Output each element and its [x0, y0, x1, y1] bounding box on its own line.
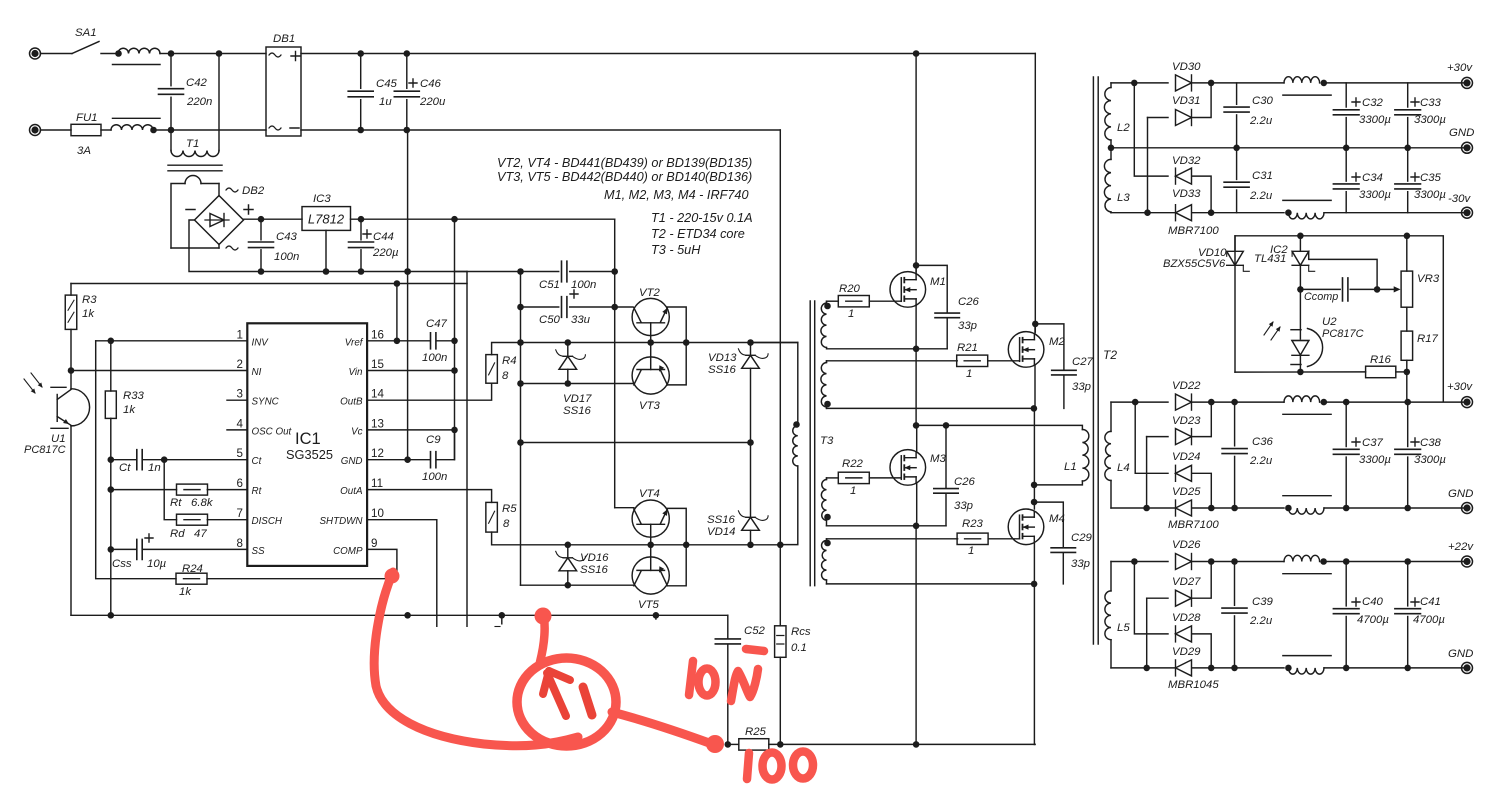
red text 100: [747, 753, 749, 779]
MOSFET M1: [890, 272, 926, 308]
diode VD23: [1147, 436, 1168, 438]
svg-text:33u: 33u: [571, 314, 591, 326]
TL431 ref wire: [1309, 251, 1377, 289]
svg-text:C36: C36: [1252, 436, 1274, 448]
regulator IC3 L7812: [302, 207, 351, 231]
left rail vertical: [70, 284, 72, 296]
pin 1 INV wire: [96, 340, 248, 342]
resistor R24 1k: [176, 573, 207, 584]
pin 7 DISCH wire with resistor Rd 47: [207, 519, 247, 521]
red text 10N: [689, 661, 693, 695]
svg-text:33p: 33p: [954, 500, 973, 512]
svg-text:VD13: VD13: [708, 352, 737, 364]
svg-text:R17: R17: [1417, 333, 1439, 345]
transformer T1 primary winding: [170, 130, 172, 151]
pin 10 SHTDWN wire down: [367, 520, 437, 627]
svg-text:T3 - 5uH: T3 - 5uH: [651, 243, 701, 257]
capacitor C32 3300u: [1345, 83, 1347, 107]
output choke +22v rail: [1284, 555, 1320, 561]
svg-text:VD26: VD26: [1172, 539, 1201, 551]
capacitor C40 4700u: [1345, 562, 1347, 606]
svg-text:33p: 33p: [1071, 558, 1090, 570]
svg-text:SS: SS: [252, 546, 266, 557]
wire ground turn down to 283.5: [466, 272, 468, 627]
svg-text:SYNC: SYNC: [252, 397, 280, 408]
pin 16 Vref wire: [367, 340, 430, 342]
svg-text:R5: R5: [502, 503, 517, 515]
junction C43 top: [258, 216, 265, 223]
capacitor C26 33p: [916, 265, 947, 312]
svg-text:6.8k: 6.8k: [191, 497, 214, 509]
winding4 bottom wire to M4 source: [827, 583, 1034, 585]
pin 2 NI wire: [71, 370, 247, 372]
svg-text:100n: 100n: [571, 279, 596, 291]
diode VD33: [1176, 205, 1192, 221]
svg-text:16: 16: [371, 328, 384, 341]
diode VD14 SS16: [742, 517, 760, 530]
svg-text:C35: C35: [1420, 172, 1442, 184]
capacitor C37 3300u: [1345, 402, 1347, 446]
pin 4 OSC Out stub: [227, 429, 247, 431]
diode VD24: [1135, 402, 1168, 473]
svg-text:MBR7100: MBR7100: [1168, 519, 1219, 531]
capacitor C44 220u polarized: [360, 219, 362, 240]
U2 light arrows: [1271, 327, 1280, 340]
diode VD13 SS16: [742, 355, 760, 368]
svg-text:3300µ: 3300µ: [1414, 189, 1446, 201]
sense rail to bridge: [916, 743, 1035, 745]
svg-text:VD22: VD22: [1172, 380, 1201, 392]
svg-text:IC3: IC3: [313, 193, 331, 205]
svg-text:10µ: 10µ: [147, 558, 167, 570]
pin 14 OutB wire: [367, 383, 492, 400]
svg-text:R22: R22: [842, 458, 864, 470]
svg-text:Rt: Rt: [170, 497, 182, 509]
T2 core: [1092, 77, 1094, 644]
red circle around transistor sketch: [517, 658, 616, 746]
stub artifacts below rail: [501, 615, 503, 624]
12V feed vertical to drivers: [614, 219, 616, 508]
svg-text:14: 14: [371, 388, 384, 401]
svg-text:2: 2: [237, 358, 243, 371]
junction C46 top: [404, 50, 411, 57]
pin 3 SYNC stub: [227, 399, 247, 401]
svg-text:C38: C38: [1420, 437, 1442, 449]
svg-text:C26: C26: [958, 296, 980, 308]
capacitor C33 3300u: [1407, 83, 1409, 107]
optocoupler U2 PC817C LED: [1299, 289, 1301, 339]
svg-text:Css: Css: [112, 558, 132, 570]
svg-text:2.2u: 2.2u: [1249, 190, 1273, 202]
svg-text:R24: R24: [182, 563, 203, 575]
svg-text:MBR1045: MBR1045: [1168, 679, 1219, 691]
svg-text:T1: T1: [186, 138, 199, 150]
regulator block bottom wire: [1235, 371, 1366, 373]
capacitor C47 100n: [431, 333, 436, 349]
svg-text:VT3: VT3: [639, 400, 661, 412]
svg-text:C44: C44: [373, 231, 394, 243]
svg-text:VD14: VD14: [707, 526, 736, 538]
svg-text:3300µ: 3300µ: [1414, 454, 1446, 466]
inductor L1: [946, 425, 1082, 429]
svg-text:1: 1: [848, 308, 854, 320]
terminal -30v: [1462, 207, 1473, 218]
svg-text:3A: 3A: [77, 145, 91, 157]
T3 secondary winding 1: [821, 303, 827, 348]
svg-text:VR3: VR3: [1417, 273, 1440, 285]
svg-text:100n: 100n: [274, 251, 299, 263]
svg-text:VT5: VT5: [638, 599, 660, 611]
right bridge vertical M2/M4: [1034, 54, 1036, 333]
VT3 collector wire: [521, 383, 634, 385]
svg-text:1: 1: [237, 328, 243, 341]
svg-text:C45: C45: [376, 78, 398, 90]
svg-text:3: 3: [237, 388, 243, 401]
junction at ground rail: [404, 268, 411, 275]
svg-text:47: 47: [194, 528, 207, 540]
svg-text:T1 - 220-15v 0.1A: T1 - 220-15v 0.1A: [651, 211, 753, 225]
wire DC minus vertical down: [407, 130, 409, 272]
svg-text:2.2u: 2.2u: [1249, 615, 1273, 627]
winding L5: [1110, 562, 1112, 591]
junction R3 to NI wire: [68, 367, 75, 374]
transistor VT5: [632, 557, 669, 594]
pin 13 Vc wire: [367, 429, 455, 431]
resistor R17: [1401, 331, 1413, 360]
svg-text:DB2: DB2: [242, 185, 265, 197]
M1 drain/source leads: [915, 265, 917, 274]
Vref branch vertical: [396, 284, 398, 341]
capacitor C27 33p: [1035, 324, 1064, 370]
capacitor C29 33p: [1034, 502, 1063, 547]
svg-text:SS16: SS16: [580, 564, 609, 576]
svg-text:2.2u: 2.2u: [1249, 455, 1273, 467]
junction C45 top: [357, 50, 364, 57]
junction C42 top: [168, 50, 175, 57]
svg-text:GND: GND: [341, 456, 363, 467]
U1 light arrows: [31, 373, 42, 387]
svg-text:13: 13: [371, 417, 384, 430]
capacitor C50 33u polarized: [521, 306, 559, 308]
GND choke of L5 section: [1283, 655, 1331, 657]
driver left vertical: [520, 272, 522, 586]
svg-text:C52: C52: [744, 625, 766, 637]
diode VD22: [1176, 394, 1192, 410]
capacitor C34 3300u: [1345, 148, 1347, 181]
pin 12 GND wire: [367, 459, 430, 461]
wire base rail to T3: [793, 421, 800, 428]
capacitor C45 1u: [360, 54, 362, 89]
diode VD28: [1134, 562, 1168, 634]
ground rail under IC3: [261, 271, 467, 273]
svg-text:VD30: VD30: [1172, 61, 1201, 73]
terminal GND L4: [1462, 503, 1473, 514]
bridge rectifier DB2: [195, 196, 244, 245]
wire DB2 minus to ground rail: [189, 220, 261, 272]
svg-text:L2: L2: [1117, 122, 1130, 134]
svg-text:L1: L1: [1064, 461, 1077, 473]
svg-text:VD16: VD16: [580, 552, 609, 564]
svg-text:1k: 1k: [123, 404, 136, 416]
terminal +22v: [1462, 556, 1473, 567]
resistor R20 1: [827, 300, 839, 302]
svg-text:M3: M3: [930, 453, 946, 465]
svg-text:3300µ: 3300µ: [1359, 454, 1391, 466]
M2-M4 midpoint vertical: [1033, 408, 1035, 509]
pin 8 SS wire: [143, 548, 248, 550]
svg-text:C33: C33: [1420, 97, 1442, 109]
junction C45 bottom: [357, 127, 364, 134]
svg-text:TL431: TL431: [1254, 253, 1286, 265]
junction C44 bottom: [358, 268, 365, 275]
svg-text:VD33: VD33: [1172, 188, 1201, 200]
INV feedback vertical: [96, 341, 176, 579]
IC1 SG3525 body: [247, 323, 367, 566]
M1-M3 midpoint vertical: [915, 349, 917, 426]
capacitor C51 100n: [562, 261, 567, 282]
svg-text:L4: L4: [1117, 462, 1130, 474]
svg-text:SA1: SA1: [75, 27, 97, 39]
svg-text:BZX55C5V6: BZX55C5V6: [1163, 258, 1226, 270]
svg-text:SG3525: SG3525: [286, 447, 333, 462]
svg-text:R3: R3: [82, 294, 97, 306]
svg-text:12: 12: [371, 447, 384, 460]
svg-text:33p: 33p: [1072, 381, 1091, 393]
transistor VT2: [632, 298, 669, 335]
bridge rectifier DB1: [266, 47, 301, 136]
bottom DC rail from DB1: [301, 129, 408, 131]
svg-text:IC1: IC1: [295, 430, 321, 448]
junction T1 top tap: [216, 50, 223, 57]
svg-text:NI: NI: [252, 367, 262, 378]
svg-text:Vc: Vc: [351, 426, 363, 437]
output choke +30v rail: [1284, 396, 1320, 402]
svg-text:220u: 220u: [419, 96, 446, 108]
L3 bottom rail: [1111, 212, 1175, 214]
output choke +30v: [1284, 77, 1320, 83]
svg-text:Rt: Rt: [252, 486, 263, 497]
MOSFET M4: [1008, 509, 1044, 545]
svg-text:M2: M2: [1049, 336, 1065, 348]
svg-text:4: 4: [237, 417, 244, 430]
VD27 anode vertical: [1146, 598, 1148, 668]
svg-text:R4: R4: [502, 355, 517, 367]
IC3 ground pin wire: [325, 230, 327, 271]
svg-text:SS16: SS16: [708, 364, 737, 376]
VT3 emitter wire: [667, 343, 686, 385]
svg-text:9: 9: [371, 537, 377, 550]
svg-text:R33: R33: [123, 390, 145, 402]
L4 bottom rail GND: [1111, 507, 1175, 509]
capacitor C9 100n: [431, 452, 436, 468]
driver base rail: [521, 342, 798, 344]
terminal +30v L4: [1462, 397, 1473, 408]
svg-text:C31: C31: [1252, 170, 1273, 182]
svg-text:PC817C: PC817C: [24, 444, 66, 456]
winding3 bottom wire to M3 source: [827, 525, 947, 527]
VD23 anode vertical: [1146, 437, 1148, 508]
capacitor C43 100n: [260, 219, 262, 240]
svg-text:R20: R20: [839, 283, 861, 295]
zener VD10 BZX55C5V6: [1227, 251, 1244, 265]
capacitor Ccomp: [1300, 288, 1340, 290]
pin 6 Rt wire with resistor Rt 6.8k: [207, 489, 247, 491]
capacitor C42 220n: [170, 54, 172, 86]
capacitor C30 2.2u: [1236, 83, 1238, 104]
svg-text:DB1: DB1: [273, 33, 295, 45]
svg-text:C40: C40: [1362, 596, 1384, 608]
svg-text:VD24: VD24: [1172, 451, 1201, 463]
pin 5 Ct wire: [164, 459, 247, 461]
top DC rail from DB1: [301, 53, 1035, 55]
winding2 bottom wire to M2 source: [827, 407, 1034, 409]
winding L4: [1110, 402, 1112, 431]
capacitor C38 3300u: [1407, 402, 1409, 446]
svg-text:C39: C39: [1252, 596, 1274, 608]
svg-text:Rd: Rd: [170, 528, 185, 540]
svg-text:1u: 1u: [379, 96, 392, 108]
L4 top rail: [1111, 401, 1168, 403]
svg-text:4700µ: 4700µ: [1413, 614, 1445, 626]
junction base rail: [647, 339, 654, 346]
capacitor C39 2.2u: [1234, 562, 1236, 606]
VT4 collector wire: [615, 507, 634, 509]
svg-text:OutA: OutA: [340, 486, 363, 497]
VT5 collector wire: [521, 584, 634, 586]
svg-text:COMP: COMP: [333, 546, 363, 557]
Vref rail wire: [71, 283, 467, 285]
svg-text:VT2: VT2: [639, 287, 661, 299]
output choke -30v: [1283, 199, 1331, 201]
svg-text:Vin: Vin: [349, 367, 363, 378]
resistor R16: [1366, 366, 1396, 378]
svg-text:FU1: FU1: [76, 112, 98, 124]
svg-text:220µ: 220µ: [372, 247, 399, 259]
svg-text:VD27: VD27: [1172, 576, 1201, 588]
svg-text:VD17: VD17: [563, 393, 592, 405]
svg-text:33p: 33p: [958, 320, 977, 332]
junction C43 bottom: [258, 268, 265, 275]
capacitor C28 33p: [916, 425, 946, 487]
diode VD29: [1176, 660, 1192, 676]
svg-text:VD29: VD29: [1172, 646, 1201, 658]
svg-text:GND: GND: [1448, 648, 1473, 660]
svg-text:C29: C29: [1071, 532, 1093, 544]
svg-text:1: 1: [850, 485, 856, 497]
svg-text:M1: M1: [930, 276, 946, 288]
left bridge vertical M1/M3: [915, 54, 917, 272]
svg-text:1: 1: [968, 545, 974, 557]
capacitor C52: [727, 615, 729, 638]
terminal GND: [1462, 142, 1473, 153]
T1 secondary loop to DB2: [171, 184, 185, 249]
svg-text:R16: R16: [1370, 354, 1392, 366]
winding1 bottom wire to M1 source: [827, 348, 948, 349]
capacitor C41 4700u: [1407, 562, 1409, 606]
T3 core: [809, 301, 811, 586]
wire L to C42: [160, 53, 171, 55]
svg-text:3300µ: 3300µ: [1414, 114, 1446, 126]
junction C46 bottom: [404, 127, 411, 134]
wiper arrow to VR3: [1377, 288, 1394, 290]
svg-text:VT2, VT4 - BD441(BD439) or BD1: VT2, VT4 - BD441(BD439) or BD139(BD135): [497, 156, 752, 170]
VT4 emitter wire: [667, 508, 686, 544]
svg-text:2.2u: 2.2u: [1249, 115, 1273, 127]
svg-text:10: 10: [371, 507, 384, 520]
driver mid rail: [521, 442, 751, 444]
winding L2: [1110, 83, 1112, 88]
svg-text:GND: GND: [1448, 488, 1473, 500]
svg-text:Vref: Vref: [345, 337, 364, 348]
junction GND vertical: [404, 268, 411, 275]
left sense vertical with R33: [110, 341, 112, 391]
VT5 emitter wire: [667, 545, 686, 586]
svg-text:SHTDWN: SHTDWN: [320, 516, 364, 527]
svg-text:L5: L5: [1117, 622, 1130, 634]
M4 source vertical to sense rail: [1033, 584, 1035, 745]
svg-text:1n: 1n: [148, 462, 161, 474]
capacitor C46 220u polarized: [406, 54, 408, 89]
svg-text:INV: INV: [252, 337, 270, 348]
svg-text:3300µ: 3300µ: [1359, 114, 1391, 126]
resistor Rcs 0.1: [779, 545, 781, 626]
wire C51 rail: [455, 271, 521, 273]
transistor VT3: [632, 357, 669, 394]
diode VD30: [1176, 75, 1192, 91]
svg-text:Ct: Ct: [252, 456, 263, 467]
svg-text:L3: L3: [1117, 192, 1130, 204]
resistor R21 1: [827, 360, 958, 362]
svg-text:8: 8: [237, 537, 243, 550]
common-mode choke bottom winding: [111, 125, 153, 130]
zener VD16 SS16: [559, 558, 577, 571]
svg-text:C43: C43: [276, 231, 298, 243]
svg-text:C26: C26: [954, 476, 976, 488]
pin 15 Vin wire: [367, 370, 455, 372]
capacitor C36 2.2u: [1234, 402, 1236, 446]
svg-text:C41: C41: [1420, 596, 1441, 608]
svg-text:100n: 100n: [422, 471, 447, 483]
svg-text:M4: M4: [1049, 513, 1065, 525]
MOSFET M3: [890, 450, 926, 486]
red transistor arrow: [543, 671, 592, 716]
svg-text:7: 7: [237, 507, 243, 520]
svg-text:5: 5: [237, 447, 243, 460]
resistor R33 1k: [105, 391, 116, 418]
red minus above N: [746, 649, 764, 651]
svg-text:C9: C9: [426, 434, 441, 446]
red line exiting circle to R25 node: [612, 712, 712, 744]
svg-text:6: 6: [237, 477, 243, 490]
svg-text:C32: C32: [1362, 97, 1384, 109]
R5 to lower driver base rail: [492, 532, 781, 545]
svg-text:C27: C27: [1072, 356, 1094, 368]
svg-text:+22v: +22v: [1448, 541, 1474, 553]
M3 source vertical to sense rail: [915, 526, 917, 745]
pin 11 OutA wire: [367, 490, 492, 503]
mid GND wire of L2/L3: [1111, 147, 1467, 149]
capacitor C31 2.2u: [1236, 148, 1238, 180]
T3 secondary winding 2: [821, 363, 827, 408]
svg-text:SS16: SS16: [707, 514, 736, 526]
capacitor Css 10u polarized: [137, 539, 142, 559]
svg-text:R23: R23: [962, 518, 984, 530]
diode VD27: [1147, 597, 1168, 599]
zener VD17 SS16: [559, 356, 577, 369]
svg-text:Rcs: Rcs: [791, 626, 811, 638]
svg-text:T2: T2: [1103, 348, 1117, 362]
VT2 emitter wire: [667, 307, 686, 343]
